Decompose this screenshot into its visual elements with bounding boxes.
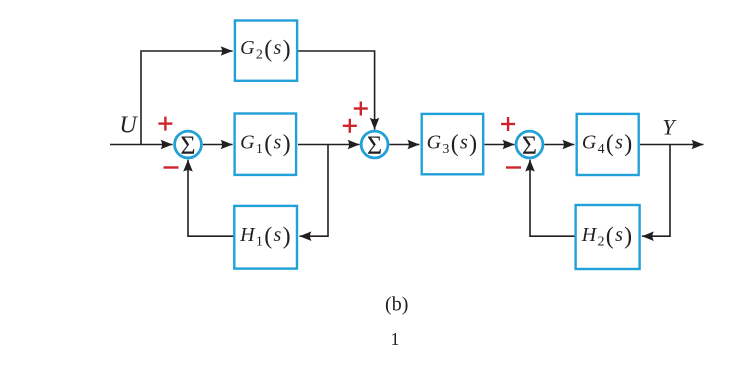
page number 1 — [391, 329, 400, 349]
svg-text:U: U — [119, 113, 138, 139]
minus sign S3 — [506, 166, 521, 168]
block G1(s) — [235, 114, 297, 175]
plus sign S2 left — [343, 119, 357, 133]
minus sign S1 — [164, 166, 179, 168]
node U label — [119, 113, 138, 139]
wire output Y — [640, 144, 704, 146]
wire input U — [110, 144, 173, 146]
svg-text:Σ: Σ — [522, 131, 537, 160]
plus sign S1 — [158, 117, 172, 131]
wire G1 to S2 — [298, 144, 360, 146]
node Y label — [662, 115, 677, 140]
wire H2 to S3 (feedback up) — [530, 160, 575, 237]
wire G3 to S3 — [485, 144, 515, 146]
svg-text:H2(s): H2(s) — [581, 224, 634, 250]
wire G2 to S2 (drop down) — [298, 51, 375, 130]
svg-text:G2(s): G2(s) — [240, 36, 292, 62]
summing junction S2 — [361, 131, 388, 160]
block G3(s) — [422, 114, 484, 174]
plus sign S2 upper — [354, 102, 368, 116]
caption (b) — [385, 294, 408, 316]
block H2(s) — [576, 205, 640, 269]
wire S2 to G3 — [389, 144, 419, 146]
svg-text:(b): (b) — [385, 294, 408, 316]
summing junction S1 — [175, 131, 202, 160]
summing junction S3 — [516, 131, 543, 160]
svg-text:G4(s): G4(s) — [582, 131, 634, 157]
svg-text:1: 1 — [391, 329, 400, 349]
svg-text:G3(s): G3(s) — [427, 131, 479, 157]
svg-text:Σ: Σ — [180, 131, 195, 160]
svg-text:G1(s): G1(s) — [240, 131, 292, 157]
wire branch G1 output to H1 — [300, 145, 329, 237]
wire branch output to H2 — [642, 145, 670, 237]
block G4(s) — [577, 114, 639, 175]
svg-text:Σ: Σ — [367, 131, 382, 160]
wire S3 to G4 — [544, 144, 574, 146]
wire H1 to S1 (feedback up) — [188, 160, 234, 237]
block H1(s) — [234, 206, 297, 269]
node branch to G2 — [141, 51, 233, 145]
svg-text:Y: Y — [662, 115, 677, 140]
block G2(s) — [235, 21, 297, 81]
svg-text:H1(s): H1(s) — [239, 224, 292, 250]
plus sign S3 — [501, 117, 515, 131]
wire S1 to G1 — [203, 144, 233, 146]
